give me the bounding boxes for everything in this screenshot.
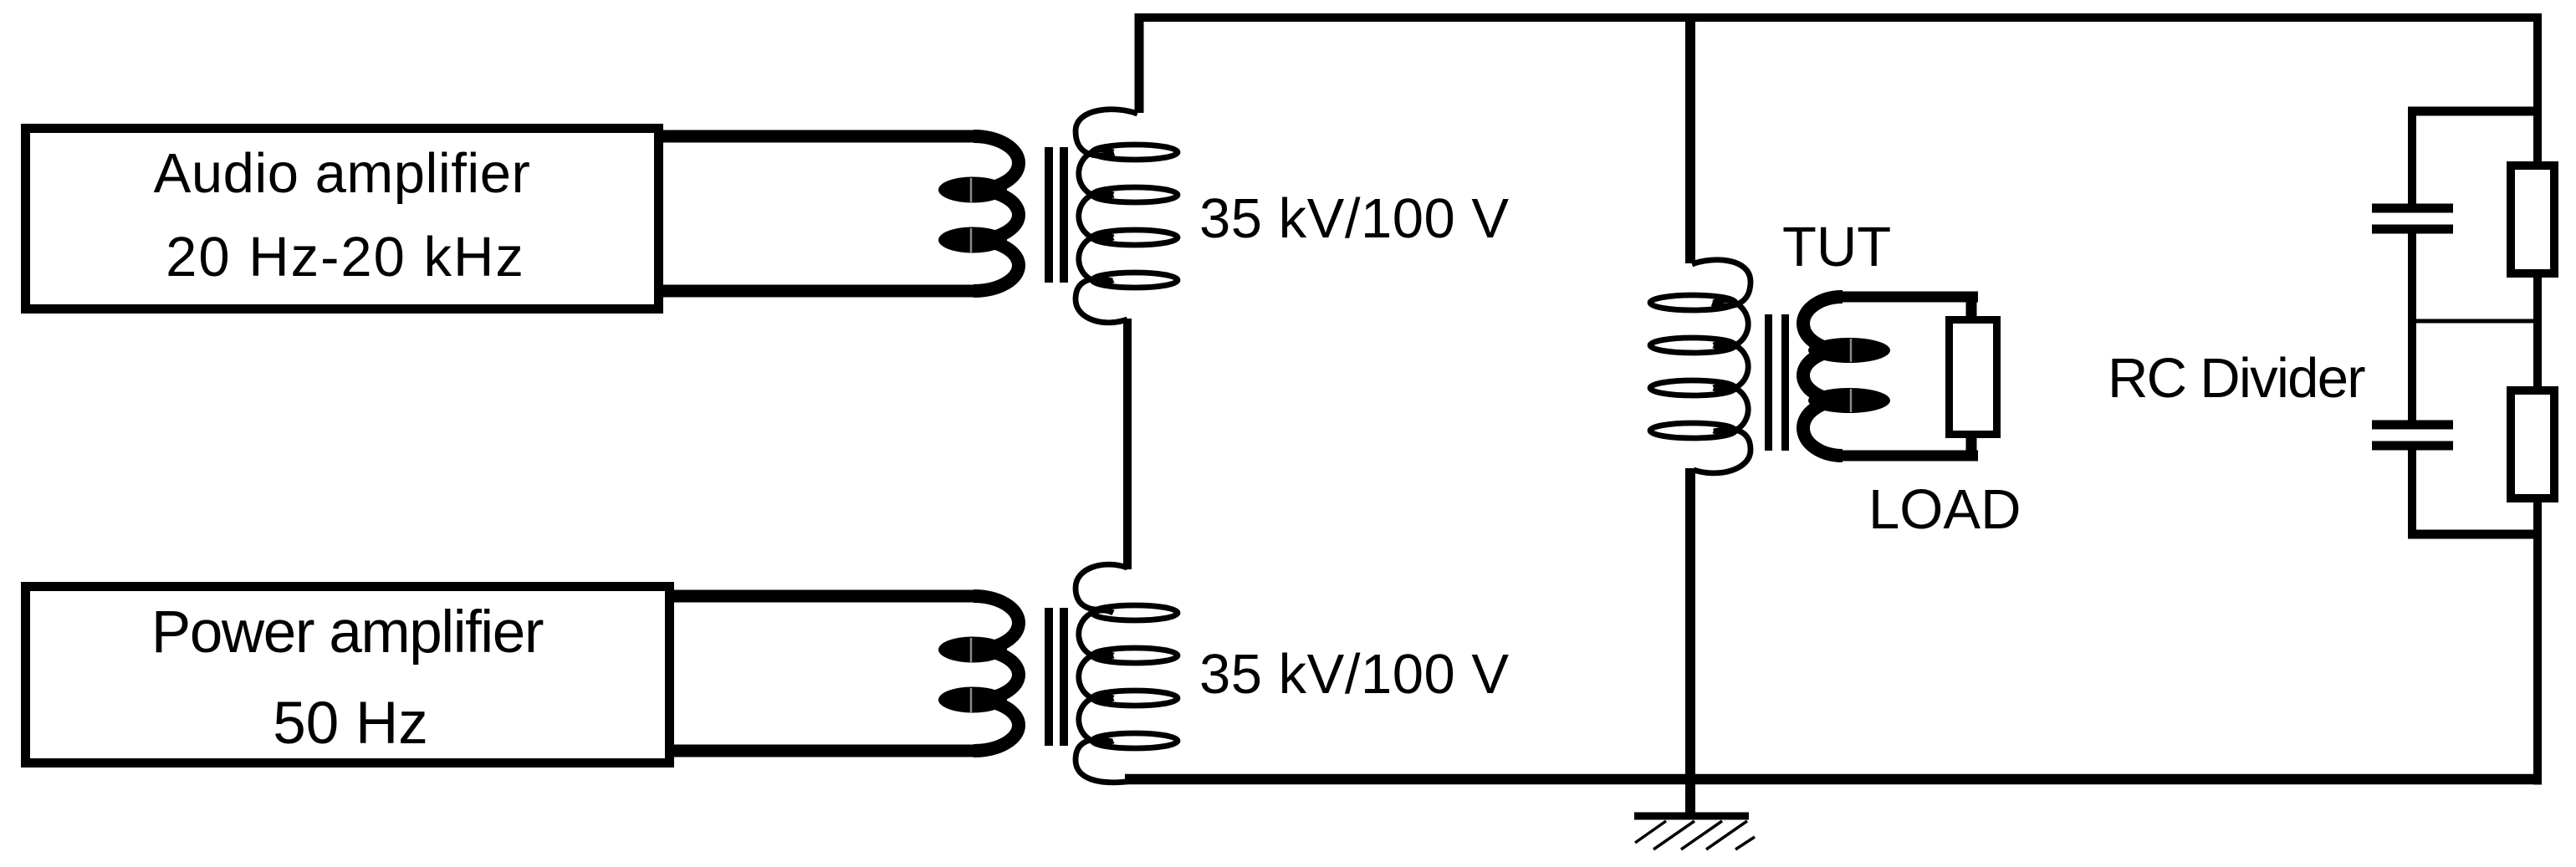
capacitor C1 plate top (2372, 204, 2453, 213)
wire bottom rail (1125, 774, 2542, 785)
RC divider bottom connector (2408, 530, 2538, 539)
transformer T2 primary winding (974, 596, 1019, 751)
ground bar (1634, 813, 1749, 820)
ground hatch 1 (1635, 821, 1666, 843)
T2 core bars (1045, 608, 1053, 746)
wire audio amplifier to T1 primary (top) (659, 130, 975, 143)
svg-text:50 Hz: 50 Hz (273, 691, 427, 757)
resistor R2 (2511, 390, 2554, 498)
svg-text:Power amplifier: Power amplifier (151, 599, 544, 666)
ground hatch 2 (1653, 821, 1694, 849)
wire LOAD bracket top (1837, 292, 1978, 303)
resistor LOAD (1950, 320, 1997, 435)
svg-text:20 Hz-20 kHz: 20 Hz-20 kHz (166, 226, 525, 288)
RC divider left branch upper (2408, 107, 2416, 206)
T2 secondary winding (1076, 564, 1178, 783)
ground hatch 5 (1735, 837, 1755, 849)
wire T1 secondary top stub (1135, 13, 1144, 113)
wire top rail (1135, 13, 2543, 22)
T1 primary loop ellipses (938, 177, 1007, 253)
RC divider left branch middle (2408, 232, 2416, 422)
TUT secondary loop ellipses (1808, 338, 1890, 413)
capacitor C2 plate bottom (2372, 441, 2453, 451)
wire link between T1 and T2 secondaries (1123, 319, 1132, 569)
transformer TUT primary winding (1650, 260, 1751, 473)
svg-text:Audio amplifier: Audio amplifier (154, 142, 531, 205)
T1 secondary winding (1076, 110, 1178, 323)
wire middle vertical (top rail to TUT primary) (1685, 13, 1695, 263)
T1 core bars (1045, 147, 1053, 283)
wire middle vertical (TUT primary to ground) (1685, 468, 1695, 816)
ground hatch 3 (1681, 821, 1722, 849)
TUT core bars (1765, 314, 1772, 451)
svg-text:LOAD: LOAD (1868, 478, 2021, 541)
wire LOAD stub bottom (1966, 433, 1977, 458)
ground hatch 4 (1706, 821, 1747, 849)
wire power amplifier to T2 primary (bottom) (667, 745, 975, 757)
RC divider left branch lower (2408, 448, 2416, 538)
box Audio amplifier (26, 129, 659, 309)
svg-text:TUT: TUT (1782, 216, 1891, 278)
wire right rail (2533, 13, 2542, 785)
capacitor C1 plate bottom (2372, 225, 2453, 234)
svg-text:35 kV/100 V: 35 kV/100 V (1199, 187, 1510, 250)
wire LOAD stub top (1966, 297, 1977, 322)
resistor R1 (2511, 166, 2554, 273)
svg-text:RC Divider: RC Divider (2108, 347, 2365, 410)
transformer T1 primary winding (974, 136, 1019, 291)
box Power amplifier (26, 587, 670, 763)
RC divider mid junction (2412, 319, 2538, 324)
RC divider top connector (2408, 107, 2538, 116)
svg-text:35 kV/100 V: 35 kV/100 V (1199, 643, 1510, 706)
wire power amplifier to T2 primary (top) (667, 590, 975, 603)
capacitor C2 plate top (2372, 421, 2453, 430)
transformer TUT secondary winding (1803, 297, 1843, 456)
wire audio amplifier to T1 primary (bottom) (659, 285, 975, 298)
wire LOAD bracket bottom (1838, 451, 1978, 462)
T2 primary loop ellipses (938, 637, 1007, 713)
